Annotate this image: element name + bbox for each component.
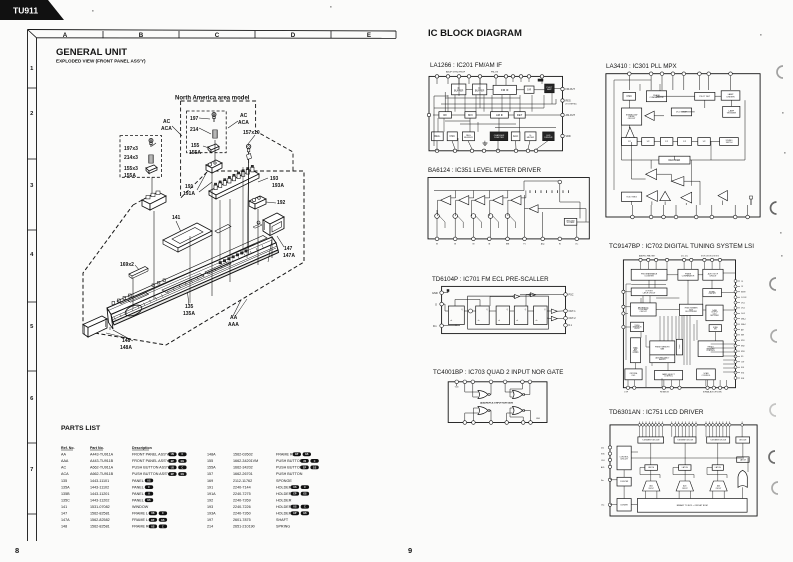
svg-text:Fin: Fin — [433, 324, 437, 328]
svg-text:SWITCH: SWITCH — [726, 142, 733, 144]
svg-text:PUSH BUTTON: PUSH BUTTON — [276, 472, 303, 476]
svg-text:GS: GS — [313, 467, 317, 469]
svg-text:QUADRUPLE 2 INPUT NOR GATE: QUADRUPLE 2 INPUT NOR GATE — [480, 402, 514, 405]
svg-text:2240-7144: 2240-7144 — [233, 485, 251, 489]
svg-text:IN: IN — [559, 244, 561, 246]
svg-text:OUT-2: OUT-2 — [569, 317, 577, 320]
svg-text:O: O — [435, 302, 437, 306]
svg-text:MIN: MIN — [506, 244, 510, 246]
svg-text:157: 157 — [207, 472, 213, 476]
svg-text:1562-82582: 1562-82582 — [90, 518, 110, 522]
svg-text:AA: AA — [61, 453, 66, 457]
svg-text:B: B — [139, 32, 144, 39]
svg-text:A443-TU911B: A443-TU911B — [90, 459, 114, 463]
svg-text:FRONT PANEL ASS'Y: FRONT PANEL ASS'Y — [132, 453, 169, 457]
svg-text:SG1: SG1 — [741, 367, 744, 369]
svg-text:135C: 135C — [61, 498, 70, 502]
svg-text:S-R: S-R — [527, 89, 531, 92]
svg-text:HOLDER: HOLDER — [276, 512, 292, 516]
svg-text:OSC: OSC — [450, 135, 456, 138]
svg-text:1531-07082: 1531-07082 — [90, 505, 110, 509]
svg-text:4: 4 — [30, 252, 34, 258]
svg-text:Osc: Osc — [601, 505, 605, 507]
svg-text:GS: GS — [181, 474, 185, 476]
svg-text:135B: 135B — [61, 492, 70, 496]
svg-text:148: 148 — [61, 525, 67, 529]
svg-text:191A: 191A — [183, 191, 195, 197]
svg-text:D-METER: D-METER — [494, 137, 504, 139]
svg-text:2601-7875: 2601-7875 — [233, 518, 251, 522]
svg-text:PUSH BUTTON: PUSH BUTTON — [276, 459, 303, 463]
svg-text:AA: AA — [230, 315, 238, 321]
svg-text:157x10: 157x10 — [243, 130, 260, 136]
svg-text:US: US — [293, 487, 297, 489]
svg-text:CH-2: CH-2 — [741, 308, 745, 310]
svg-text:192: 192 — [207, 498, 213, 502]
svg-text:O XP: O XP — [624, 392, 629, 394]
svg-text:O1: O1 — [741, 281, 743, 283]
svg-text:COMPARATOR: COMPARATOR — [682, 274, 695, 277]
svg-text:GS: GS — [181, 461, 185, 463]
svg-text:SD: SD — [741, 356, 744, 358]
svg-text:NORMAL AUTO UP DOWN: NORMAL AUTO UP DOWN — [703, 391, 721, 394]
svg-text:VDD: VDD — [455, 387, 459, 389]
svg-text:HOLDER: HOLDER — [276, 498, 292, 502]
svg-text:2: 2 — [30, 111, 33, 117]
svg-text:DSA-1: DSA-1 — [741, 318, 746, 321]
svg-text:A443-TU911A: A443-TU911A — [90, 453, 114, 457]
svg-text:LATCH: LATCH — [740, 458, 747, 461]
svg-text:E: E — [367, 32, 371, 39]
svg-text:SW1: SW1 — [741, 340, 745, 342]
svg-text:1443-11201: 1443-11201 — [90, 492, 109, 496]
svg-text:HOLDER: HOLDER — [276, 505, 292, 509]
svg-text:O2: O2 — [741, 286, 743, 288]
svg-text:FRAME L: FRAME L — [132, 518, 148, 522]
svg-text:SW2: SW2 — [741, 346, 745, 348]
svg-text:BINARY TO BCD + OFFSET ROM: BINARY TO BCD + OFFSET ROM — [677, 504, 708, 507]
svg-text:ACA: ACA — [238, 120, 249, 126]
svg-text:LATCH: LATCH — [648, 466, 655, 469]
svg-text:Ref. No.: Ref. No. — [61, 446, 75, 450]
svg-text:197: 197 — [190, 116, 199, 122]
svg-text:TC9147BP : IC702 DIGITAL TUNIN: TC9147BP : IC702 DIGITAL TUNING SYSTEM L… — [609, 243, 754, 250]
svg-text:EP: EP — [171, 474, 175, 476]
svg-text:Fin: Fin — [601, 480, 604, 482]
svg-text:1443-11202: 1443-11202 — [90, 498, 109, 502]
svg-text:CIRCUIT: CIRCUIT — [640, 311, 648, 313]
svg-text:IN: IN — [472, 244, 474, 246]
svg-text:ck: ck — [450, 320, 452, 322]
svg-text:1662-26701: 1662-26701 — [233, 472, 253, 476]
svg-text:OUT-1: OUT-1 — [569, 310, 577, 313]
svg-text:ACA: ACA — [61, 472, 69, 476]
svg-text:147A: 147A — [283, 253, 295, 259]
svg-text:PARTS LIST: PARTS LIST — [61, 425, 101, 432]
svg-text:SPONGE: SPONGE — [276, 479, 292, 483]
svg-text:C: C — [215, 32, 220, 39]
svg-text:OSC.: OSC. — [631, 375, 636, 377]
svg-text:TD6301AN : IC751 LCD DRIVER: TD6301AN : IC751 LCD DRIVER — [609, 409, 704, 416]
svg-text:DRIVER: DRIVER — [544, 137, 552, 139]
svg-text:FM-OUT: FM-OUT — [566, 88, 576, 91]
svg-text:CLOCK: CLOCK — [741, 297, 747, 299]
svg-text:MUTE: MUTE — [741, 292, 746, 294]
svg-text:US: US — [171, 454, 175, 456]
svg-text:BUFFER: BUFFER — [464, 137, 473, 139]
svg-text:CH-3: CH-3 — [741, 313, 745, 315]
svg-text:2240-7275: 2240-7275 — [233, 492, 251, 496]
svg-text:IN: IN — [488, 244, 490, 246]
svg-text:2112-11762: 2112-11762 — [233, 479, 252, 483]
svg-text:LA3410 : IC301 PLL MPX: LA3410 : IC301 PLL MPX — [606, 63, 677, 70]
svg-text:141: 141 — [172, 215, 181, 221]
svg-text:DRIVER: DRIVER — [727, 96, 735, 98]
svg-text:DO+ DO-: DO+ DO- — [681, 256, 689, 258]
svg-text:MIX: MIX — [468, 113, 473, 117]
svg-text:FRONT PANEL ASS'Y: FRONT PANEL ASS'Y — [132, 459, 169, 463]
svg-text:1562-02602: 1562-02602 — [233, 453, 253, 457]
svg-text:DIVIDER: DIVIDER — [633, 352, 639, 354]
svg-text:PANEL: PANEL — [132, 485, 144, 489]
svg-text:Q: Q — [507, 309, 509, 311]
svg-text:MEMORY: MEMORY — [659, 359, 666, 361]
svg-text:SHAFT: SHAFT — [276, 518, 289, 522]
svg-text:DIVIDER: DIVIDER — [620, 504, 628, 506]
svg-text:Description: Description — [132, 446, 152, 450]
svg-text:EP: EP — [171, 461, 175, 463]
svg-text:METER: METER — [527, 137, 535, 139]
svg-text:Q: Q — [461, 309, 463, 311]
svg-text:US: US — [151, 526, 155, 528]
svg-text:A: A — [63, 32, 68, 39]
svg-text:AGC: AGC — [513, 135, 519, 138]
svg-text:AM-OUT: AM-OUT — [566, 114, 576, 117]
svg-text:191: 191 — [207, 485, 213, 489]
svg-text:135A: 135A — [61, 485, 70, 489]
svg-text:A/D: A/D — [601, 466, 605, 469]
svg-text:DET: DET — [517, 113, 523, 117]
svg-text:GND: GND — [536, 418, 541, 420]
svg-text:DSA-2: DSA-2 — [741, 323, 746, 326]
svg-text:CIRCUIT: CIRCUIT — [634, 328, 640, 330]
svg-text:ck: ck — [536, 320, 538, 322]
svg-text:214x3: 214x3 — [124, 155, 138, 161]
svg-text:PSC: PSC — [569, 294, 574, 297]
svg-text:IN: IN — [436, 244, 438, 246]
svg-text:C: C — [679, 348, 680, 350]
svg-text:TD6104P : IC701 FM ECL PRE-SCA: TD6104P : IC701 FM ECL PRE-SCALLER — [432, 276, 549, 283]
svg-text:CIRCUIT: CIRCUIT — [716, 488, 722, 490]
svg-text:RF: RF — [443, 113, 447, 117]
svg-text:GS: GS — [147, 500, 151, 502]
svg-text:Amp: Amp — [541, 243, 545, 246]
svg-text:GND: GND — [432, 291, 438, 295]
svg-text:193A: 193A — [207, 512, 216, 516]
svg-text:8: 8 — [15, 546, 19, 555]
svg-text:192: 192 — [277, 200, 286, 206]
svg-text:148A: 148A — [120, 345, 132, 351]
svg-text:SW: SW — [714, 329, 717, 331]
svg-text:TRIGGER: TRIGGER — [726, 113, 736, 115]
svg-text:191: 191 — [185, 184, 194, 190]
svg-text:D: D — [291, 32, 296, 39]
svg-text:5: 5 — [30, 324, 34, 330]
svg-text:CLK: CLK — [601, 460, 606, 462]
svg-text:1: 1 — [30, 66, 34, 72]
svg-text:9: 9 — [408, 546, 412, 555]
svg-text:2240-7260: 2240-7260 — [233, 512, 251, 516]
svg-text:GS: GS — [303, 513, 307, 515]
svg-text:SG3: SG3 — [741, 378, 744, 380]
svg-text:155A: 155A — [207, 466, 216, 470]
svg-text:PUSH BUTTON ASS'Y: PUSH BUTTON ASS'Y — [132, 472, 170, 476]
svg-text:GS: GS — [305, 454, 309, 456]
svg-text:FRAME R: FRAME R — [132, 525, 149, 529]
svg-text:1562-82581: 1562-82581 — [90, 525, 110, 529]
svg-text:DECODER: DECODER — [710, 315, 719, 317]
svg-text:PANEL: PANEL — [132, 492, 144, 496]
svg-text:GS: GS — [161, 520, 165, 522]
svg-text:135A: 135A — [183, 311, 195, 317]
svg-text:6: 6 — [30, 396, 34, 402]
svg-text:IN: IN — [454, 244, 456, 246]
svg-text:CONTROL: CONTROL — [664, 376, 673, 378]
svg-text:7-SEGMENT DECODE: 7-SEGMENT DECODE — [642, 440, 660, 442]
svg-text:ACA: ACA — [161, 126, 172, 132]
svg-text:LA1266 : IC201 FM/AM IF: LA1266 : IC201 FM/AM IF — [430, 62, 502, 69]
svg-text:SPRING: SPRING — [276, 525, 290, 529]
svg-text:ck: ck — [516, 320, 518, 322]
svg-text:COUNTER: COUNTER — [620, 481, 629, 483]
svg-text:LATCH: LATCH — [715, 466, 722, 469]
svg-text:2240-7269: 2240-7269 — [233, 498, 251, 502]
svg-text:147: 147 — [61, 512, 67, 516]
svg-text:AAA: AAA — [228, 322, 239, 328]
svg-text:7-SEGMENT DECODE: 7-SEGMENT DECODE — [677, 440, 693, 442]
svg-text:7: 7 — [30, 467, 33, 473]
svg-text:155A: 155A — [124, 173, 136, 179]
svg-text:FM MW LW: FM MW LW — [660, 392, 669, 394]
svg-text:OSC: OSC — [627, 95, 633, 98]
svg-text:Q: Q — [486, 309, 488, 311]
svg-text:TC4001BP : IC703 QUAD 2 INPUT: TC4001BP : IC703 QUAD 2 INPUT NOR GATE — [433, 369, 563, 376]
svg-text:EP: EP — [293, 494, 297, 496]
svg-text:CIRCUIT: CIRCUIT — [708, 293, 716, 295]
svg-text:FM IF: FM IF — [501, 88, 509, 92]
svg-text:CIRCUIT: CIRCUIT — [682, 488, 688, 490]
svg-text:ck: ck — [478, 320, 480, 322]
svg-text:FM-OS: FM-OS — [491, 72, 499, 74]
svg-text:REG.: REG. — [434, 135, 440, 138]
svg-text:148A: 148A — [207, 453, 216, 457]
svg-text:141: 141 — [61, 505, 67, 509]
svg-text:155: 155 — [207, 459, 213, 463]
svg-text:P1: P1 — [523, 244, 525, 246]
svg-text:AAA: AAA — [61, 459, 69, 463]
svg-text:N.c: N.c — [569, 324, 573, 327]
svg-text:BUFFER: BUFFER — [475, 90, 485, 92]
svg-text:US: US — [151, 513, 155, 515]
svg-text:PANEL: PANEL — [132, 498, 144, 502]
svg-text:Q: Q — [525, 309, 527, 311]
svg-text:US: US — [171, 467, 175, 469]
svg-text:AC: AC — [240, 113, 248, 119]
svg-text:RAM: RAM — [660, 347, 664, 350]
svg-text:Part No.: Part No. — [90, 446, 104, 450]
svg-text:US: US — [303, 461, 307, 463]
svg-text:HOLDER: HOLDER — [276, 492, 292, 496]
svg-text:197x3: 197x3 — [124, 146, 138, 152]
svg-text:155A: 155A — [189, 150, 201, 156]
svg-text:214: 214 — [207, 525, 213, 529]
svg-text:US: US — [147, 480, 151, 482]
svg-text:147A: 147A — [61, 518, 70, 522]
svg-text:(TO ESP30): (TO ESP30) — [566, 104, 577, 106]
svg-text:PANEL: PANEL — [132, 479, 144, 483]
svg-text:CIRCUIT: CIRCUIT — [620, 459, 629, 461]
svg-text:169x2: 169x2 — [120, 262, 134, 268]
svg-text:SG2: SG2 — [741, 372, 744, 374]
svg-text:EP: EP — [295, 454, 299, 456]
svg-text:ck: ck — [498, 320, 500, 322]
svg-text:SW3: SW3 — [741, 351, 745, 353]
svg-text:Vcc: Vcc — [575, 244, 578, 246]
svg-text:135: 135 — [185, 304, 194, 310]
svg-text:AM-IF STRQ FM-IF: AM-IF STRQ FM-IF — [446, 71, 466, 74]
svg-text:1443-11101: 1443-11101 — [90, 479, 109, 483]
svg-text:CIRCUIT: CIRCUIT — [628, 118, 637, 120]
svg-text:A662-TU911A: A662-TU911A — [90, 466, 114, 470]
svg-text:PILOT DET: PILOT DET — [699, 96, 711, 98]
svg-text:1443-11102: 1443-11102 — [90, 485, 109, 489]
svg-text:EP: EP — [151, 520, 155, 522]
svg-text:1662-34202: 1662-34202 — [233, 466, 253, 470]
svg-text:191A: 191A — [207, 492, 216, 496]
svg-text:REG.: REG. — [566, 100, 572, 103]
svg-text:VOLT REG: VOLT REG — [626, 197, 637, 199]
svg-text:2651-210190: 2651-210190 — [233, 525, 255, 529]
svg-text:214: 214 — [190, 127, 199, 133]
svg-text:3: 3 — [30, 183, 34, 189]
svg-text:193A: 193A — [272, 183, 284, 189]
svg-text:AMA FSC FMA TEST: AMA FSC FMA TEST — [639, 255, 655, 258]
svg-text:AM: AM — [741, 328, 744, 331]
svg-text:1662-34201VM: 1662-34201VM — [233, 459, 258, 463]
svg-text:Q: Q — [544, 309, 546, 311]
svg-text:AC: AC — [163, 119, 171, 125]
svg-text:CONTROL: CONTROL — [702, 375, 711, 377]
svg-text:GENERAL UNIT: GENERAL UNIT — [56, 47, 127, 58]
svg-text:CH-1: CH-1 — [741, 302, 745, 304]
svg-text:BA6124 : IC351 LEVEL METER DRI: BA6124 : IC351 LEVEL METER DRIVER — [428, 167, 541, 174]
svg-text:AC: AC — [61, 466, 66, 470]
svg-text:155x3: 155x3 — [124, 166, 138, 172]
svg-text:COUNTER: COUNTER — [644, 275, 654, 277]
svg-text:MW: MW — [741, 335, 744, 337]
svg-text:PUSH BUTTON ASS'Y: PUSH BUTTON ASS'Y — [132, 466, 170, 470]
svg-text:Din: Din — [601, 447, 604, 449]
svg-text:WINDOW: WINDOW — [132, 505, 149, 509]
svg-text:AM IF: AM IF — [496, 113, 503, 117]
svg-text:A662-TU911B: A662-TU911B — [90, 472, 114, 476]
svg-text:US: US — [293, 507, 297, 509]
svg-text:169: 169 — [207, 479, 213, 483]
svg-text:GS: GS — [303, 494, 307, 496]
svg-text:193: 193 — [270, 176, 279, 182]
svg-text:155: 155 — [191, 143, 200, 149]
svg-text:VOLTAGE: VOLTAGE — [567, 221, 576, 224]
svg-text:2240-7226: 2240-7226 — [233, 505, 251, 509]
svg-text:STOP-1 STOP-2 STOP-3: STOP-1 STOP-2 STOP-3 — [701, 256, 719, 258]
svg-text:STb: STb — [601, 454, 606, 456]
svg-text:LATCH CIRCUIT: LATCH CIRCUIT — [643, 291, 656, 294]
svg-text:147: 147 — [284, 246, 293, 252]
svg-text:EP: EP — [293, 513, 297, 515]
svg-text:CIRCUIT: CIRCUIT — [709, 275, 717, 277]
svg-text:193: 193 — [207, 505, 213, 509]
svg-text:TU911: TU911 — [13, 6, 38, 16]
svg-text:DECODE: DECODE — [739, 440, 747, 442]
svg-text:CIRCUIT: CIRCUIT — [648, 488, 654, 490]
svg-text:North America area model: North America area model — [175, 96, 250, 102]
svg-text:EP: EP — [303, 467, 307, 469]
svg-text:FRAME L: FRAME L — [132, 512, 148, 516]
svg-text:VDD: VDD — [566, 135, 571, 138]
svg-text:FRAME R: FRAME R — [276, 453, 293, 457]
svg-text:EXPLODED VIEW (FRONT PANEL ASS: EXPLODED VIEW (FRONT PANEL ASS'Y) — [56, 59, 146, 64]
svg-text:HOLDER: HOLDER — [276, 485, 292, 489]
svg-text:AMP: AMP — [547, 88, 552, 91]
svg-text:OUT: OUT — [741, 362, 744, 364]
svg-text:PUSH BUTTON: PUSH BUTTON — [276, 466, 303, 470]
svg-text:LATCH: LATCH — [682, 466, 689, 469]
svg-text:197: 197 — [207, 518, 213, 522]
svg-text:135: 135 — [61, 479, 67, 483]
svg-text:1562-82581: 1562-82581 — [90, 512, 110, 516]
svg-text:DECODER: DECODER — [669, 160, 681, 162]
svg-text:7-SEGMENT DECODE: 7-SEGMENT DECODE — [710, 440, 726, 442]
svg-text:IC BLOCK DIAGRAM: IC BLOCK DIAGRAM — [428, 28, 522, 39]
svg-text:MULTIPLEXER: MULTIPLEXER — [685, 311, 697, 313]
